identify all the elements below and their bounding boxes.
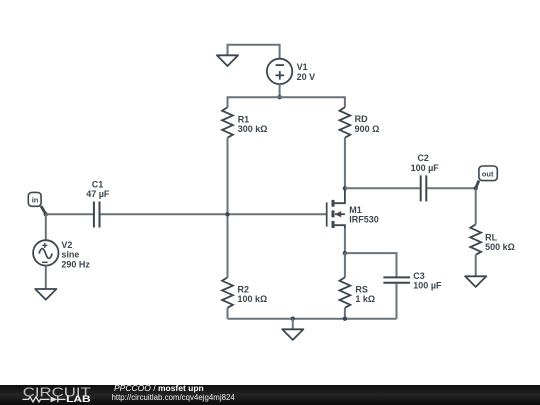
wire: V1 bottom to supply node <box>279 84 281 97</box>
node: gate/R1-R2 junction <box>225 212 229 216</box>
svg-text:900 Ω: 900 Ω <box>355 124 380 134</box>
svg-text:C1: C1 <box>92 180 104 190</box>
label RS 1 kOhm <box>355 284 375 304</box>
ground GND3 (below RL) <box>465 276 486 287</box>
wire: source node to C3 branch <box>345 253 397 277</box>
label V2 sine 290 Hz <box>61 240 90 269</box>
wire: C1 to gate <box>100 213 326 215</box>
svg-text:C3: C3 <box>413 271 425 281</box>
svg-text:V1: V1 <box>297 62 308 72</box>
svg-text:290 Hz: 290 Hz <box>61 259 90 269</box>
resistor R2 <box>222 277 233 307</box>
capacitor C3 <box>383 277 410 282</box>
resistor RD <box>340 107 351 137</box>
svg-text:100 kΩ: 100 kΩ <box>238 294 268 304</box>
voltage source V2 (sine) <box>33 240 58 265</box>
node: input junction <box>44 212 48 216</box>
svg-text:47 µF: 47 µF <box>86 189 110 199</box>
ground GND2 (below V2) <box>35 289 56 300</box>
wire: ground stub <box>292 319 294 330</box>
wire: V2 bottom to ground <box>45 266 47 289</box>
svg-text:V2: V2 <box>61 240 72 250</box>
svg-text:RL: RL <box>485 232 497 242</box>
svg-text:http://circuitlab.com/cqv4ejg4: http://circuitlab.com/cqv4ejg4mj824 <box>112 393 236 402</box>
wire: in node to C1 <box>46 213 93 215</box>
label C3 100 uF <box>413 271 442 291</box>
svg-text:in: in <box>32 196 39 205</box>
wire: in node down to V2 <box>45 214 47 240</box>
node: supply junction <box>277 95 281 99</box>
wire: bottom rail <box>228 318 397 320</box>
resistor RL <box>470 224 481 254</box>
wire: R1 bottom to gate node to R2 top <box>227 138 229 278</box>
svg-text:R2: R2 <box>238 285 250 295</box>
svg-text:20 V: 20 V <box>297 72 316 82</box>
svg-text:M1: M1 <box>349 205 362 215</box>
label C2 100 uF <box>411 153 440 173</box>
capacitor C2 <box>421 175 427 201</box>
svg-text:500 kΩ: 500 kΩ <box>485 242 515 252</box>
wire: supply rail <box>228 97 345 107</box>
label R2 100 kOhm <box>238 285 268 305</box>
node: out junction <box>474 186 478 190</box>
svg-text:out: out <box>482 170 494 179</box>
svg-text:100 µF: 100 µF <box>413 281 442 291</box>
ground GND4 (bottom rail) <box>282 329 303 340</box>
svg-text:300 kΩ: 300 kΩ <box>238 124 268 134</box>
svg-text:RS: RS <box>355 284 368 294</box>
label R1 300 kOhm <box>238 114 268 134</box>
wire: drain node to C2 <box>345 187 420 189</box>
svg-text:C2: C2 <box>417 153 429 163</box>
wire: RD bottom to drain node <box>344 138 346 189</box>
label RL 500 kOhm <box>485 232 515 252</box>
node: source junction <box>343 251 347 255</box>
footer bar <box>0 385 540 405</box>
wire: C3 bottom to bottom rail <box>396 284 398 319</box>
resistor R1 <box>222 107 233 137</box>
svg-text:IRF530: IRF530 <box>349 215 379 225</box>
node flag out <box>476 166 498 188</box>
wire: C2 to out node <box>427 187 476 189</box>
wire: top-left ground to V1 top <box>228 45 280 59</box>
label V1 20 V <box>297 62 316 82</box>
wire: out node down to RL <box>475 188 477 224</box>
logo wire squiggle with diode <box>23 397 66 403</box>
node: bottom rail RS junction <box>343 317 347 321</box>
node flag in <box>28 192 46 214</box>
label RD 900 Ohm <box>355 114 380 134</box>
node: drain junction <box>343 186 347 190</box>
node: bottom rail ground junction <box>291 317 295 321</box>
resistor RS <box>340 277 351 307</box>
svg-text:100 µF: 100 µF <box>411 163 440 173</box>
label C1 47 uF <box>86 180 110 200</box>
svg-text:1 kΩ: 1 kΩ <box>355 294 375 304</box>
wire: source to source node <box>344 228 346 253</box>
svg-text:PPCCOO / mosfet upn: PPCCOO / mosfet upn <box>114 383 204 393</box>
voltage source V1 <box>267 59 292 84</box>
svg-text:sine: sine <box>61 250 79 260</box>
svg-text:RD: RD <box>355 114 368 124</box>
label M1 IRF530 <box>349 205 379 225</box>
wire: R2 bottom to bottom rail <box>227 308 229 319</box>
ground GND1 (top left) <box>217 55 238 66</box>
svg-text:LAB: LAB <box>66 394 91 405</box>
capacitor C1 <box>94 202 100 228</box>
wire: RS bottom to bottom rail <box>344 308 346 319</box>
transistor M1 (NMOS IRF530) <box>327 188 345 230</box>
wire: RL bottom to ground <box>475 255 477 276</box>
svg-text:R1: R1 <box>238 114 250 124</box>
wire: source node down to RS <box>344 253 346 277</box>
